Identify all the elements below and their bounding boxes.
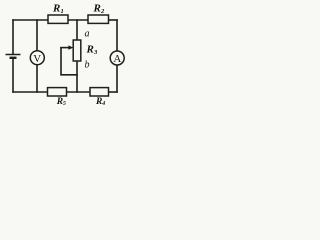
svg-text:R: R: [52, 3, 60, 15]
wire R3 bottom to bottom bus: [76, 61, 78, 92]
wire voltmeter branch lower: [36, 65, 38, 92]
wire left side lower: [12, 59, 14, 92]
wire wiper return (left and bottom of R3): [61, 48, 77, 75]
wire node a branch (top bus to R3): [76, 20, 78, 40]
svg-text:b: b: [85, 60, 90, 71]
svg-text:2: 2: [100, 8, 105, 15]
svg-text:5: 5: [63, 101, 66, 107]
wire bottom bus middle segment: [67, 91, 91, 93]
svg-text:A: A: [113, 53, 121, 65]
svg-text:a: a: [85, 29, 90, 40]
wire left side upper: [12, 20, 14, 54]
svg-text:R: R: [56, 97, 63, 107]
svg-text:4: 4: [101, 101, 105, 107]
wire voltmeter branch upper: [36, 20, 38, 51]
svg-text:3: 3: [93, 49, 98, 56]
resistor R1: [48, 3, 68, 24]
wire top bus left segment: [13, 19, 48, 21]
wire top bus right segment: [109, 19, 118, 21]
wire bottom bus right segment: [109, 91, 118, 93]
voltmeter V: [30, 51, 44, 65]
rheostat R3 (vertical box): [73, 40, 98, 61]
wire top bus middle segment: [68, 19, 88, 21]
resistor R4 (bottom right): [90, 88, 109, 108]
svg-text:R: R: [86, 44, 94, 56]
resistor R2: [88, 3, 109, 24]
resistor R5 (bottom left): [48, 88, 67, 108]
wire right side lower: [116, 65, 118, 92]
wiper arrowhead of R3: [68, 45, 73, 49]
wire right side upper: [116, 20, 118, 51]
svg-text:R: R: [93, 3, 101, 15]
svg-text:1: 1: [61, 8, 64, 15]
wire wiper horizontal: [61, 47, 71, 49]
svg-text:R: R: [95, 97, 102, 107]
svg-text:V: V: [33, 53, 41, 65]
wire bottom bus left segment: [13, 91, 48, 93]
battery cell: [6, 55, 21, 58]
ammeter A: [110, 51, 124, 65]
